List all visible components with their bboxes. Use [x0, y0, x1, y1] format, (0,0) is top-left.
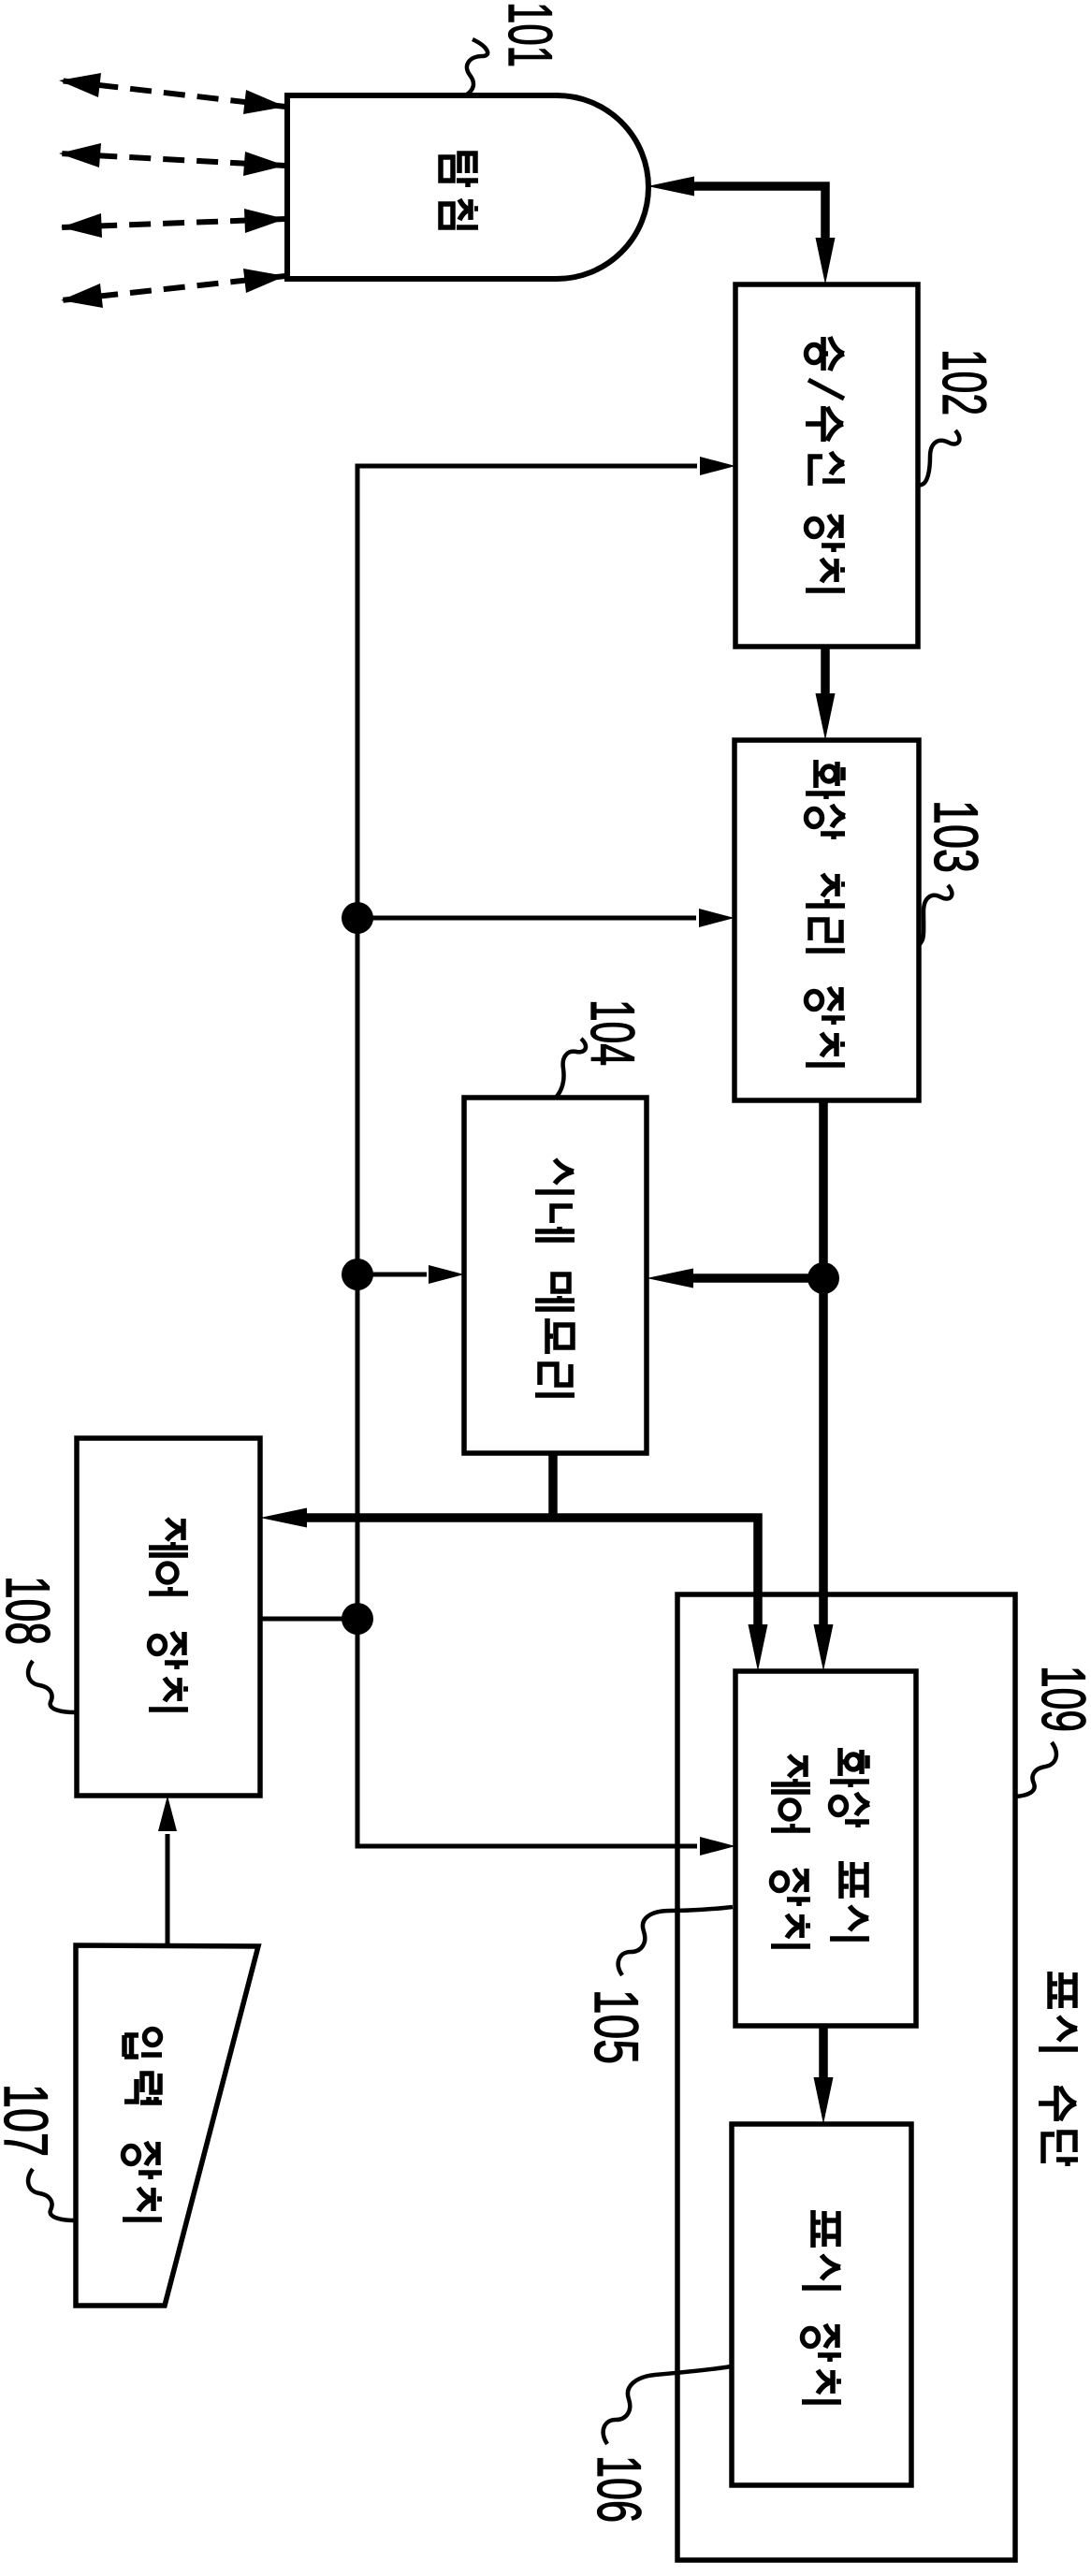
wire thin 107 to 108 [158, 1796, 177, 1945]
squiggle 107 [28, 2169, 75, 2220]
label 표시 수단 [1039, 1972, 1078, 2166]
junction dot on 103-105 wire [807, 1262, 839, 1294]
box 103 화상 처리 장치 [735, 740, 919, 1100]
squiggle 106 [604, 2366, 731, 2444]
junction dot thin bus at 103 branch [342, 902, 373, 934]
beam dashed arrow 3 [61, 209, 285, 238]
wire thin branch to 103 bottom [357, 909, 735, 927]
wire thick 103 to 105 [814, 1100, 834, 1671]
svg-text:109: 109 [1029, 1666, 1091, 1732]
squiggle 108 [28, 1661, 75, 1712]
wire thin branch down to 108 top [260, 1617, 357, 1622]
box 102 송/수신 장치 [735, 284, 918, 647]
wire thin branch to 104 bottom [357, 1265, 464, 1284]
probe 101 capsule outline [287, 95, 648, 279]
squiggle 109 [1015, 1742, 1056, 1797]
squiggle 101 [467, 39, 487, 95]
junction dot thin bus at 108 branch [342, 1603, 373, 1635]
wire thick branch down to 104 top [647, 1269, 823, 1288]
squiggle 105 [618, 1907, 733, 1975]
svg-text:103: 103 [922, 800, 991, 873]
squiggle 103 [919, 885, 952, 945]
svg-text:101: 101 [496, 2, 565, 67]
junction dot thin bus at 104 branch [342, 1259, 373, 1290]
wire thick 102 to 103 [816, 647, 836, 740]
svg-text:104: 104 [578, 999, 647, 1066]
wire thick 105 to 106 [814, 2024, 834, 2124]
wire thin long bus with branches [357, 457, 735, 1856]
svg-text:108: 108 [0, 1576, 63, 1645]
box 105 화상 표시 제어 장치 [735, 1671, 916, 2026]
squiggle 102 [918, 430, 959, 486]
box 109 display means [677, 1594, 1015, 2560]
beam dashed arrow 4 [61, 269, 285, 308]
squiggle 104 [556, 1039, 586, 1098]
wire thick 104 bottom to bus [548, 1453, 558, 1518]
probe 101 text 탐침 [441, 153, 478, 227]
box 104 시네 메모리 [464, 1098, 647, 1453]
trapezoid 107 입력 장치 [76, 1945, 258, 2306]
beam dashed arrow 1 [59, 73, 285, 114]
beam dashed arrow 2 [59, 143, 285, 176]
box 106 표시 장치 [732, 2124, 911, 2485]
svg-text:106: 106 [585, 2455, 654, 2523]
box 108 제어 장치 [77, 1438, 260, 1796]
wire thick bus to 108 and 105 [260, 1508, 768, 1672]
wire thick probe to 102 (bidirectional) [647, 177, 836, 285]
svg-text:102: 102 [930, 349, 999, 415]
svg-text:105: 105 [582, 1989, 651, 2064]
svg-text:107: 107 [0, 2084, 61, 2157]
